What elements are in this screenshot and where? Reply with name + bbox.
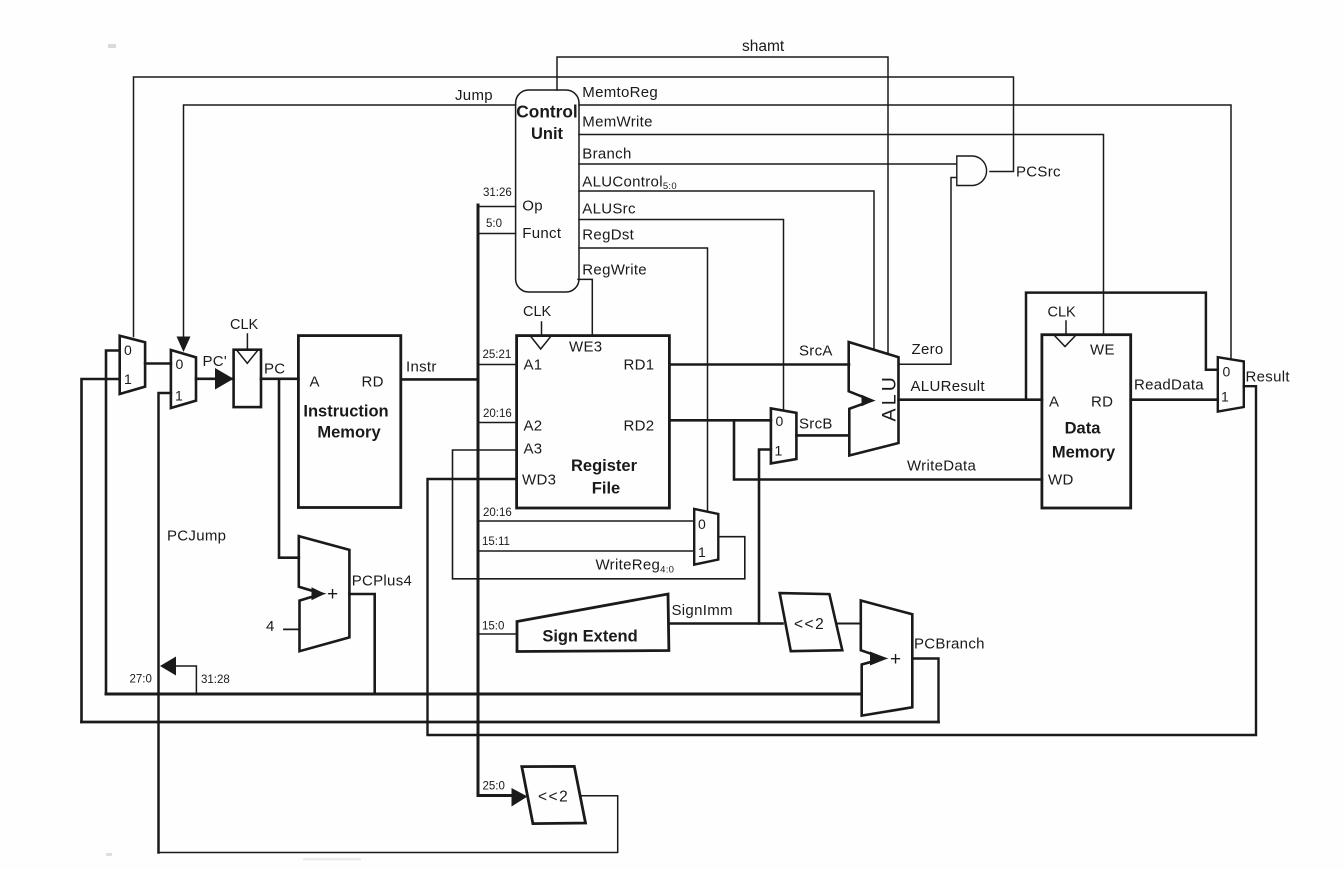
svg-text:ALUResult: ALUResult xyxy=(911,378,986,395)
svg-text:0: 0 xyxy=(124,342,132,358)
wire: PCPlus4 long line xyxy=(106,693,861,696)
arrowhead PC' xyxy=(215,368,234,390)
svg-text:A3: A3 xyxy=(524,441,543,458)
mux M5 (Result mux) xyxy=(1218,357,1244,411)
svg-text:Sign Extend: Sign Extend xyxy=(542,628,637,646)
wire: <<2 output to PCBranch adder xyxy=(837,623,861,625)
svg-text:WD3: WD3 xyxy=(522,472,556,489)
wire: mux M1 output to mux M2 input xyxy=(145,362,171,365)
mux M4 (SrcB mux) xyxy=(771,408,797,463)
shifter <<2 upper xyxy=(780,593,843,651)
wire: WriteReg loop from mux to A3 xyxy=(453,450,745,579)
svg-text:SignImm: SignImm xyxy=(672,602,733,619)
svg-text:20:16: 20:16 xyxy=(483,408,512,420)
svg-text:25:0: 25:0 xyxy=(483,781,505,793)
svg-text:WriteData: WriteData xyxy=(907,458,976,475)
wire: WriteData tap down and to Data Memory WD xyxy=(734,420,1042,479)
mux M1 (PCSrc mux) xyxy=(120,336,145,394)
svg-text:CLK: CLK xyxy=(1048,305,1077,321)
wire: PCBranch long line xyxy=(82,721,939,724)
bus tap 20:16 to WriteReg mux 0 xyxy=(478,520,694,522)
svg-text:WE: WE xyxy=(1090,342,1115,359)
wire: ReadData to Result mux input 1 xyxy=(1131,398,1218,401)
svg-text:1: 1 xyxy=(175,388,183,404)
svg-text:+: + xyxy=(327,584,338,605)
svg-text:0: 0 xyxy=(176,356,184,372)
svg-text:0: 0 xyxy=(1223,364,1231,380)
svg-text:5:0: 5:0 xyxy=(486,218,502,230)
svg-text:SrcA: SrcA xyxy=(799,343,833,360)
svg-text:RD2: RD2 xyxy=(624,418,655,435)
svg-text:15:0: 15:0 xyxy=(482,621,504,633)
svg-text:RD1: RD1 xyxy=(624,357,655,374)
wire: SignImm up into SrcB mux input 1 xyxy=(759,450,771,624)
wire: PC down to PCPlus4 adder xyxy=(279,379,299,558)
bus tap A2 xyxy=(478,422,517,424)
svg-text:A: A xyxy=(1049,394,1059,411)
RF clock wedge xyxy=(530,336,551,349)
bus tap 15:11 to WriteReg mux 1 xyxy=(478,550,694,552)
svg-text:WD: WD xyxy=(1048,472,1074,489)
bus tap 15:0 to sign extend xyxy=(478,633,517,635)
PCBranch notch arrow xyxy=(870,652,888,666)
wire: RD1 to ALU SrcA xyxy=(669,363,849,366)
svg-text:ReadData: ReadData xyxy=(1134,377,1204,394)
wire: PCSrc from AND gate up and across to jump-area mux select xyxy=(134,77,1014,337)
svg-text:PCJump: PCJump xyxy=(167,528,226,545)
wire: ALUResult to Data Memory A and Result mux xyxy=(899,398,1042,401)
instruction memory xyxy=(298,336,400,508)
data memory xyxy=(1042,335,1131,508)
wire: Jump from Control Unit left to mux M2 select xyxy=(184,105,516,338)
AND gate PCSrc xyxy=(957,156,987,186)
bus tap Op xyxy=(478,206,516,208)
svg-text:1: 1 xyxy=(124,371,132,387)
svg-text:File: File xyxy=(592,480,620,498)
wire: PCPlus4 output down to PCPlus4 line xyxy=(349,594,374,694)
register PC xyxy=(234,350,261,407)
svg-text:ALUControl5:0: ALUControl5:0 xyxy=(582,174,677,193)
svg-text:RD: RD xyxy=(1091,394,1113,411)
bus tap A1 xyxy=(478,364,517,366)
wire: MemWrite from Control Unit to Data Memory WE xyxy=(579,135,1104,335)
svg-text:15:11: 15:11 xyxy=(482,536,510,548)
register file xyxy=(517,336,670,508)
shifter <<2 lower xyxy=(522,766,586,823)
wire: PC to Instruction Memory A xyxy=(261,377,298,380)
svg-text:+: + xyxy=(890,649,901,670)
svg-text:Instr: Instr xyxy=(406,359,437,376)
wire: jump target loop from <<2 to PCJump vertical xyxy=(159,796,618,853)
svg-text:RegWrite: RegWrite xyxy=(582,262,647,279)
wire: Branch from Control Unit to AND gate input xyxy=(579,163,957,165)
svg-text:1: 1 xyxy=(698,544,706,560)
svg-text:PC: PC xyxy=(264,361,285,378)
svg-text:Memory: Memory xyxy=(317,424,381,442)
wire: 31:28 tap from PCPlus4 line to PCJump xyxy=(176,666,196,694)
wire: Instr from Instruction Memory to bus xyxy=(401,378,478,381)
svg-text:WE3: WE3 xyxy=(569,339,602,356)
svg-text:31:28: 31:28 xyxy=(201,674,230,686)
svg-text:PCSrc: PCSrc xyxy=(1016,164,1061,181)
svg-text:Memory: Memory xyxy=(1052,444,1116,462)
wire: constant 4 into PCPlus4 adder xyxy=(284,628,299,630)
svg-text:MemtoReg: MemtoReg xyxy=(582,84,658,101)
svg-text:Register: Register xyxy=(571,457,638,475)
svg-text:A2: A2 xyxy=(524,418,543,435)
svg-text:CLK: CLK xyxy=(230,317,259,333)
wire: PCBranch feedback into mux M1 input 1 xyxy=(82,379,120,722)
scan speck top-left xyxy=(108,44,116,48)
svg-text:Zero: Zero xyxy=(912,341,944,358)
svg-text:1: 1 xyxy=(775,443,783,459)
adder PCPlus4 xyxy=(299,536,350,651)
svg-text:Data: Data xyxy=(1065,420,1102,438)
wire: RegDst from Control Unit to WriteReg mux select xyxy=(579,248,708,511)
wire: Result loop to WD3 xyxy=(428,386,1257,735)
svg-text:4: 4 xyxy=(266,618,275,635)
arrowhead on Jump select into mux M2 xyxy=(177,337,191,353)
ALU U2 xyxy=(849,342,899,456)
svg-text:Funct: Funct xyxy=(522,225,562,242)
svg-text:MemWrite: MemWrite xyxy=(582,114,652,131)
bus tap Funct xyxy=(478,233,516,235)
wire: PC' from mux M2 to PC register xyxy=(196,377,234,380)
wire: ALUControl from Control Unit down to ALU xyxy=(579,191,874,349)
wire: shamt from Control Unit top to ALU top xyxy=(557,57,888,354)
svg-text:Branch: Branch xyxy=(582,146,631,163)
svg-text:A: A xyxy=(310,374,320,391)
svg-text:27:0: 27:0 xyxy=(130,674,152,686)
svg-text:A1: A1 xyxy=(524,357,543,374)
DM CLK stub xyxy=(1065,321,1067,335)
wire: PCPlus4 feedback into mux M1 input 0 xyxy=(106,351,120,695)
PC CLK stub xyxy=(246,334,248,350)
svg-text:20:16: 20:16 xyxy=(483,507,512,519)
sign extend U3 xyxy=(517,594,669,652)
ALU notch arrow xyxy=(862,395,875,407)
DM clock wedge xyxy=(1054,335,1076,347)
wire: SignImm output xyxy=(669,622,783,625)
adder PCBranch xyxy=(861,601,913,716)
scan speck bottom xyxy=(303,858,361,861)
svg-text:0: 0 xyxy=(698,516,706,532)
jump concat arrow into PCJump vertical xyxy=(160,657,176,676)
svg-text:Instruction: Instruction xyxy=(303,403,388,421)
wire: ALUSrc from Control Unit to SrcB mux select xyxy=(579,220,784,410)
mux M2 (Jump mux) xyxy=(171,350,196,408)
svg-text:PCPlus4: PCPlus4 xyxy=(352,573,412,590)
wire: MemtoReg from Control Unit to Result mux select xyxy=(579,105,1231,360)
svg-text:RD: RD xyxy=(362,374,384,391)
svg-text:Unit: Unit xyxy=(531,125,564,143)
control unit U1 xyxy=(516,90,579,292)
wire: PCJump into mux M2 input 1 xyxy=(159,393,171,853)
svg-text:Result: Result xyxy=(1246,369,1291,386)
svg-text:shamt: shamt xyxy=(742,38,785,55)
svg-text:Jump: Jump xyxy=(455,87,493,104)
PC clock wedge xyxy=(237,350,258,363)
svg-text:ALUSrc: ALUSrc xyxy=(582,201,636,218)
svg-text:Op: Op xyxy=(522,198,543,215)
svg-text:31:26: 31:26 xyxy=(483,187,512,199)
PCPlus4 notch arrow xyxy=(312,587,326,600)
svg-text:RegDst: RegDst xyxy=(582,227,634,244)
svg-text:Control: Control xyxy=(516,102,577,122)
svg-text:<<2: <<2 xyxy=(794,616,825,633)
arrowhead into lower <<2 xyxy=(512,788,528,807)
svg-text:PC': PC' xyxy=(203,353,228,370)
svg-text:1: 1 xyxy=(1221,389,1229,405)
mux M3 (WriteReg mux) xyxy=(694,509,718,565)
svg-text:0: 0 xyxy=(776,413,784,429)
svg-text:ALU: ALU xyxy=(879,374,901,422)
svg-text:<<2: <<2 xyxy=(538,789,569,806)
svg-text:25:21: 25:21 xyxy=(483,349,512,361)
svg-text:PCBranch: PCBranch xyxy=(914,636,985,653)
instruction bus vertical xyxy=(478,205,511,796)
wire: RD2 to SrcB mux input 0 xyxy=(669,419,771,422)
svg-text:CLK: CLK xyxy=(523,304,552,320)
RF CLK stub xyxy=(541,322,543,335)
wire: RegWrite from Control Unit to Register File WE3 xyxy=(578,279,592,335)
wire: SrcB mux output to ALU xyxy=(796,434,849,437)
wire: PCBranch output down to PCBranch line xyxy=(912,659,938,723)
svg-text:SrcB: SrcB xyxy=(799,416,833,433)
wire: Zero from ALU to AND gate input xyxy=(899,178,957,365)
